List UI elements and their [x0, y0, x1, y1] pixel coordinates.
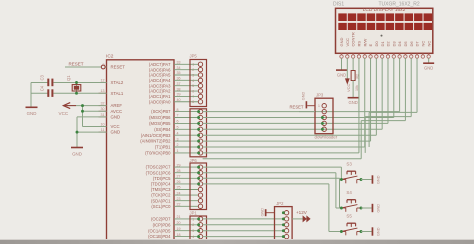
IC2 pin 20 (ICP)PD6 (right) [153, 221, 199, 227]
svg-text:2: 2 [192, 223, 194, 227]
svg-text:37: 37 [177, 82, 181, 86]
IC2 pin 35 (ADC5)PA5 (right) [149, 71, 198, 77]
svg-text:(TOSC2)PC7: (TOSC2)PC7 [146, 165, 171, 170]
JP4 pin 5 [197, 133, 203, 137]
svg-text:33: 33 [177, 61, 181, 65]
LCD pin 6 E [368, 44, 373, 59]
wire LCD NC pin down [428, 58, 430, 63]
wire LCD RS column down [358, 58, 360, 153]
svg-text:29: 29 [177, 163, 181, 167]
net RESET to IC2 pin 9 [65, 61, 107, 69]
svg-text:(ICP)PD6: (ICP)PD6 [153, 222, 172, 227]
svg-text:8: 8 [177, 108, 179, 112]
LCD pin 7 D0 [374, 41, 379, 59]
svg-text:26: 26 [177, 180, 181, 184]
svg-text:2: 2 [192, 68, 194, 72]
svg-text:downloader: downloader [315, 135, 338, 140]
svg-text:GND: GND [377, 204, 381, 213]
svg-text:8: 8 [192, 100, 194, 104]
IC2 pin 21 (OC2)PD7 (right) [151, 215, 198, 221]
ground GND (JP2 pin1) [261, 208, 275, 217]
IC2 pin 18 (OC1B)PD4 (right) [148, 233, 198, 239]
svg-text:1: 1 [177, 149, 179, 153]
svg-text:(AIN1/OC0)PB3: (AIN1/OC0)PB3 [141, 133, 171, 138]
wire PC4 row to S5 [203, 184, 342, 232]
svg-text:GND: GND [377, 227, 381, 236]
svg-text:18: 18 [177, 233, 181, 237]
svg-text:3: 3 [192, 229, 194, 233]
svg-text:R/W: R/W [362, 39, 367, 47]
wire LCD VCC pin down [346, 58, 348, 79]
LCD pin 16 NC [426, 41, 431, 59]
svg-text:VCC: VCC [346, 83, 351, 92]
IC2 pin 23 (SDA)PC1 (right) [151, 197, 198, 203]
wire D7 jog vertical [368, 112, 370, 147]
JP5 pin 3 [192, 73, 203, 78]
svg-text:D5: D5 [403, 41, 408, 47]
wire D7 jog row [369, 111, 417, 113]
JP4 pin 1 [197, 109, 203, 113]
svg-text:6: 6 [177, 120, 179, 124]
JP3 pin 1 [318, 104, 326, 108]
junction crystal bottom [75, 92, 78, 95]
JP2 pin 3 [282, 223, 289, 227]
wire LCD D0 column down [375, 58, 377, 135]
svg-text:25: 25 [177, 186, 181, 190]
ground GND (IC2 left) [71, 148, 83, 157]
svg-text:GND: GND [424, 66, 433, 71]
svg-text:(ADC7)PA7: (ADC7)PA7 [149, 62, 171, 67]
svg-text:NC: NC [420, 41, 425, 47]
svg-text:E: E [368, 44, 373, 47]
svg-text:JP6: JP6 [190, 158, 198, 163]
wire D6 jog vertical [364, 117, 366, 153]
ground GND (JP3 pin1) [302, 92, 315, 109]
wire D5 jog row [361, 120, 405, 122]
IC2 pin 26 (TDO)PC4 (right) [151, 180, 199, 186]
IC2 pin 1 (T0/XCK)PB0 (right) [145, 149, 198, 155]
svg-text:GND: GND [377, 175, 381, 184]
svg-text:IC2: IC2 [106, 54, 114, 60]
svg-text:JP5: JP5 [190, 54, 198, 59]
svg-text:JP2: JP2 [276, 201, 284, 206]
JP6 pin 2 [197, 171, 203, 175]
wire XTAL1 net [31, 92, 107, 94]
IC2 pin 6 (MOSI)PB5 (right) [149, 120, 198, 126]
wire net row to IC header (RW) [203, 146, 365, 148]
svg-text:28: 28 [177, 169, 181, 173]
wire PD4 row to JP2 pin5 [203, 236, 284, 238]
svg-text:(OC1A)PD5: (OC1A)PD5 [148, 228, 171, 233]
svg-text:(ADC2)PA2: (ADC2)PA2 [149, 89, 171, 94]
JP6 pin 5 [198, 187, 202, 191]
svg-text:GND: GND [72, 151, 82, 156]
wire PC5 row [203, 178, 340, 208]
JP4 pin 2 [197, 115, 203, 119]
JP3 pin 4 [321, 121, 326, 125]
IC2 pin 19 (OC1A)PD5 (right) [148, 227, 198, 233]
JP2 pin 2 [282, 217, 289, 221]
crystal Q1 [66, 75, 81, 93]
IC2 pin 7 (MISO)PB6 (right) [149, 114, 198, 120]
svg-text:38: 38 [177, 87, 181, 91]
JP5 pin 1 [192, 62, 203, 67]
wire LCD D4 column down [399, 58, 401, 111]
svg-text:(MOSI)PB5: (MOSI)PB5 [149, 121, 171, 126]
LCD pin 5 R/W [362, 39, 367, 59]
svg-text:Q1: Q1 [66, 75, 71, 81]
svg-text:5: 5 [192, 84, 194, 88]
svg-text:(ADC6)PA6: (ADC6)PA6 [149, 67, 171, 72]
svg-text:19: 19 [177, 227, 181, 231]
svg-text:(OC2)PD7: (OC2)PD7 [151, 217, 171, 222]
JP5 pin 4 [192, 78, 203, 83]
LCD display DIS1 body TUXGR_16X2_R2 [333, 2, 433, 54]
wire D5 jog vertical [360, 121, 362, 159]
junction crystal top [75, 81, 78, 84]
svg-text:D2: D2 [386, 41, 391, 47]
svg-text:2: 2 [177, 143, 179, 147]
IC2 pin 25 (TMS)PC3 (right) [151, 186, 199, 192]
svg-text:D3: D3 [391, 41, 396, 47]
svg-text:GND: GND [261, 208, 265, 217]
LCD pin 8 D1 [380, 41, 385, 59]
svg-text:10k: 10k [355, 85, 359, 91]
svg-text:(MISO)PB6: (MISO)PB6 [149, 115, 171, 120]
LCD pin 12 D5 [403, 41, 408, 59]
pin header JP5 body [190, 54, 207, 107]
LCD character cells 16x2 grid [338, 13, 432, 30]
svg-text:JP1: JP1 [190, 211, 198, 216]
svg-text:32: 32 [101, 102, 105, 106]
JP4 pin 4 [197, 127, 203, 131]
svg-text:GND: GND [111, 130, 121, 135]
svg-text:(TDI)PC5: (TDI)PC5 [153, 176, 171, 181]
svg-text:(T0/XCK)PB0: (T0/XCK)PB0 [145, 151, 171, 156]
ground GND (S3) [372, 175, 381, 184]
junction S3 right terminal [360, 178, 363, 181]
wire net row to IC header (D1) [203, 128, 383, 130]
ground GND (S4) [372, 204, 381, 213]
JP6 pin 7 [198, 199, 202, 203]
JP5 pin 6 [192, 89, 203, 94]
svg-text:23: 23 [177, 197, 181, 201]
LCD pin 15 NC [420, 41, 425, 59]
IC2 pin 10 VCC (left) [99, 123, 120, 130]
svg-text:35: 35 [177, 71, 181, 75]
pin header JP4 body [190, 109, 207, 157]
pin header JP1 body [190, 211, 207, 244]
JP2 pin 4 [282, 229, 289, 233]
ground GND (crystal caps) [26, 107, 38, 116]
IC2 pin 40 (ADC0)PA0 (right) [149, 98, 198, 104]
svg-text:CONTR: CONTR [351, 32, 356, 46]
svg-text:S3: S3 [346, 162, 352, 167]
pushbutton S5 [341, 214, 361, 236]
JP1 pin 2 [192, 223, 203, 228]
svg-text:AREF: AREF [111, 103, 123, 108]
svg-text:20: 20 [177, 221, 181, 225]
wire PD7 row to +12V / JP2 pin2 [203, 218, 284, 220]
wire cap join to ground [30, 83, 32, 108]
svg-text:(TMS)PC3: (TMS)PC3 [151, 187, 171, 192]
ground GND (LCD pin1) [336, 70, 347, 77]
IC2 pin 37 (ADC3)PA3 (right) [149, 82, 198, 88]
junction S5 left terminal [340, 230, 343, 233]
svg-text:11: 11 [101, 128, 105, 132]
svg-text:21: 21 [177, 215, 181, 219]
LCD pin 2 VCC [345, 38, 350, 58]
wire PC6 row to S4 [203, 173, 342, 208]
JP6 pin 1 [197, 165, 203, 169]
wire LCD D3 column down [393, 58, 395, 117]
LCD pin 14 D7 [415, 41, 420, 59]
IC2 pin 34 (ADC6)PA6 (right) [149, 66, 198, 72]
LCD pin 9 D2 [386, 41, 391, 59]
JP5 pin 8 [192, 100, 203, 105]
ground GND (LCD NC) [423, 63, 434, 70]
pushbutton S3 [341, 162, 361, 184]
svg-text:NC: NC [426, 41, 431, 47]
JP3 pin 3 [321, 115, 326, 119]
wire net row to IC header (RS) [203, 152, 359, 154]
svg-text:(AIN0/INT2)PB2: (AIN0/INT2)PB2 [140, 139, 171, 144]
svg-text:22: 22 [177, 203, 181, 207]
IC2 pin 33 (ADC7)PA7 (right) [149, 61, 198, 67]
IC2 pin 38 (ADC2)PA2 (right) [149, 87, 198, 93]
svg-text:(SDA)PC1: (SDA)PC1 [151, 198, 171, 203]
wire net row to IC header (D2) [203, 122, 388, 124]
wire LCD E column down [370, 58, 372, 141]
wire LCD CONTR pin down [352, 58, 354, 70]
svg-text:39: 39 [177, 93, 181, 97]
svg-text:34: 34 [177, 66, 181, 70]
LCD pin 4 RS [357, 41, 362, 59]
wire net row to IC header (D0) [203, 134, 377, 136]
svg-text:LCD DISPLAY 16x2: LCD DISPLAY 16x2 [363, 7, 406, 13]
svg-text:(ADC5)PA5: (ADC5)PA5 [149, 73, 171, 78]
svg-text:30: 30 [101, 107, 105, 111]
capacitor C4 [40, 85, 54, 97]
LCD stray dot artifact [381, 35, 383, 37]
svg-text:4: 4 [177, 131, 179, 135]
svg-text:VCC: VCC [345, 38, 350, 47]
svg-text:13: 13 [101, 89, 105, 93]
IC2 pin 24 (TCK)PC2 (right) [151, 191, 198, 197]
wire net row to IC header (E) [203, 140, 371, 142]
wire S5 to ground [361, 231, 372, 233]
JP1 pin 1 [192, 217, 203, 222]
IC2 pin 22 (SCL)PC0 (right) [151, 203, 198, 209]
wire S4 to ground [361, 207, 372, 209]
capacitor C3 [40, 74, 54, 86]
svg-text:GND: GND [339, 38, 344, 47]
IC2 pin 8 (SCK)PB7 (right) [151, 108, 198, 114]
svg-text:D0: D0 [374, 41, 379, 47]
svg-text:RESET: RESET [111, 65, 126, 70]
wire VCC vertical branch [82, 106, 84, 127]
wire XTAL2 net [31, 82, 107, 84]
wire net row to IC header (D3) [203, 117, 394, 119]
wire GND pin31 [77, 117, 107, 147]
LCD pin 1 GND [339, 38, 344, 59]
JP5 pin 5 [192, 84, 203, 89]
wire GND pin11 [77, 131, 107, 133]
JP4 pin 3 [197, 121, 203, 125]
IC2 pin 31 GND (left) [99, 113, 121, 120]
IC2 pin 3 (AIN0/INT2)PB2 (right) [140, 137, 198, 143]
wire LCD D5 column down [404, 58, 406, 120]
supply VCC arrow down (LCD) [345, 78, 351, 92]
pin header JP6 body [190, 158, 207, 210]
resistor R2 [351, 71, 359, 92]
svg-text:D4: D4 [397, 41, 402, 47]
svg-text:GND: GND [27, 111, 37, 116]
JP6 pin 4 [197, 182, 203, 186]
svg-text:6: 6 [192, 89, 194, 93]
pushbutton S4 [341, 190, 361, 212]
wire D6 jog row [365, 116, 411, 118]
svg-text:1: 1 [192, 63, 194, 67]
junction GND pin11 [76, 131, 79, 134]
wire S3 to ground [361, 179, 372, 181]
IC2 pin 27 (TDI)PC5 (right) [153, 175, 198, 181]
svg-text:DIS1: DIS1 [333, 2, 344, 8]
svg-text:10: 10 [101, 123, 105, 127]
supply VCC arrow (AREF net) [59, 103, 107, 117]
svg-text:(TOSC1)PC6: (TOSC1)PC6 [146, 170, 171, 175]
pin header JP3 downloader body [315, 93, 338, 140]
LCD pin 13 D6 [409, 41, 414, 59]
IC2 pin 5 (SS)PB4 (right) [154, 126, 198, 132]
junction AVCC [81, 110, 84, 113]
svg-text:GND: GND [111, 115, 121, 120]
svg-text:3: 3 [192, 73, 194, 77]
wire R2 to ground [352, 81, 354, 98]
JP4 pin 6 [197, 139, 203, 143]
svg-text:C4: C4 [40, 85, 45, 91]
supply +12V arrow (JP2 pin2) [292, 210, 311, 222]
LCD pin 11 D4 [397, 41, 402, 59]
JP2 pin 5 [282, 234, 289, 238]
svg-text:(TCK)PC2: (TCK)PC2 [151, 193, 171, 198]
svg-text:XTAL1: XTAL1 [111, 91, 124, 96]
svg-text:7: 7 [177, 114, 179, 118]
JP1 pin 4 [192, 234, 203, 239]
svg-text:3: 3 [177, 137, 179, 141]
IC2 pin 36 (ADC4)PA4 (right) [149, 77, 198, 83]
junction S5 right terminal [360, 230, 363, 233]
wire net row A9 [203, 158, 362, 160]
JP6 pin 3 [197, 176, 203, 180]
junction S4 right terminal [360, 207, 363, 210]
wire PD6 row to JP2 pin3 [203, 224, 284, 226]
svg-text:D7: D7 [415, 41, 420, 47]
wire PD5 row to JP2 pin4 [203, 230, 284, 232]
IC2 pin 9 RESET (left) [99, 63, 126, 70]
svg-text:JP3: JP3 [316, 93, 324, 98]
JP1 pin 3 [192, 229, 203, 234]
IC2 pin 29 (TOSC2)PC7 (right) [146, 163, 199, 169]
IC2 pin 32 AREF (left) [99, 102, 123, 109]
svg-text:(ADC3)PA3: (ADC3)PA3 [149, 83, 171, 88]
svg-text:+12V: +12V [296, 210, 308, 215]
svg-text:1: 1 [318, 104, 320, 108]
svg-text:S4: S4 [346, 190, 352, 195]
pin header JP2 body [275, 201, 293, 244]
svg-text:VCC: VCC [111, 124, 120, 129]
IC2 pin 11 GND (left) [99, 128, 121, 135]
svg-text:(ADC0)PA0: (ADC0)PA0 [149, 99, 171, 104]
wire LCD D1 column down [381, 58, 383, 129]
svg-text:TUXGR_16X2_R2: TUXGR_16X2_R2 [379, 2, 420, 8]
svg-text:40: 40 [177, 98, 181, 102]
IC2 pin 12 XTAL2 (left) [99, 79, 124, 86]
svg-text:GND: GND [348, 100, 357, 105]
wire AVCC branch [83, 110, 107, 112]
junction S4 left terminal [340, 207, 343, 210]
svg-text:C3: C3 [40, 74, 45, 80]
IC U IC2 ATmega16 body [106, 54, 174, 244]
JP5 pin 7 [192, 94, 203, 99]
JP6 pin 8 [198, 204, 202, 208]
JP4 pin 8 [197, 151, 203, 155]
svg-text:RESET: RESET [69, 61, 84, 66]
JP3 pin 2 [322, 109, 326, 113]
svg-text:27: 27 [177, 175, 181, 179]
svg-text:5: 5 [177, 126, 179, 130]
LCD pin 10 D3 [391, 41, 396, 59]
JP4 pin 7 [197, 145, 203, 149]
svg-text:XTAL2: XTAL2 [111, 80, 124, 85]
svg-text:D1: D1 [380, 41, 385, 47]
svg-text:(ADC4)PA4: (ADC4)PA4 [149, 78, 171, 83]
svg-text:D6: D6 [409, 41, 414, 47]
LCD pin 3 CONTR [351, 32, 356, 58]
svg-text:7: 7 [192, 95, 194, 99]
IC2 pin 28 (TOSC1)PC6 (right) [146, 169, 199, 175]
svg-text:AVCC: AVCC [111, 109, 123, 114]
wire LCD D2 column down [387, 58, 389, 123]
wire LCD GND pin down [341, 58, 343, 70]
IC2 pin 4 (AIN1/OC0)PB3 (right) [141, 131, 199, 137]
svg-text:1: 1 [192, 217, 194, 221]
net RESET label at JP3 pin2 [290, 105, 316, 112]
svg-text:12: 12 [101, 79, 105, 83]
svg-text:(SCL)PC0: (SCL)PC0 [151, 204, 171, 209]
svg-text:(SS)PB4: (SS)PB4 [154, 127, 171, 132]
svg-text:4: 4 [192, 79, 194, 83]
svg-text:GND: GND [337, 72, 346, 77]
svg-text:VCC: VCC [59, 111, 69, 116]
junction S3 left terminal [340, 178, 343, 181]
svg-text:(ADC1)PA1: (ADC1)PA1 [149, 94, 171, 99]
wire LCD D6 column down [410, 58, 412, 116]
svg-text:(T1)PB1: (T1)PB1 [155, 145, 171, 150]
ground GND (contrast resistor) [348, 98, 359, 105]
wire net row to IC header (D4) [203, 111, 400, 113]
svg-text:31: 31 [101, 113, 105, 117]
wire VCC pin10 branch [83, 126, 107, 128]
svg-text:36: 36 [177, 77, 181, 81]
wire PC7 row to S3 [203, 167, 342, 179]
IC2 pin 39 (ADC1)PA1 (right) [149, 93, 198, 99]
IC2 pin 2 (T1)PB1 (right) [155, 143, 198, 149]
svg-text:S5: S5 [346, 214, 352, 219]
JP6 pin 6 [198, 193, 202, 197]
svg-text:(SCK)PB7: (SCK)PB7 [151, 109, 171, 114]
JP2 pin 1 [282, 211, 289, 215]
